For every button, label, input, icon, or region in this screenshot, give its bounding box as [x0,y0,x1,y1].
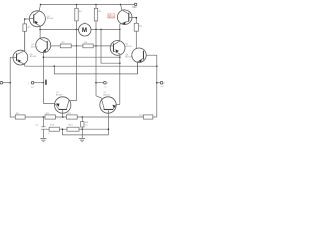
svg-text:BD140: BD140 [30,56,37,58]
svg-text:BD140: BD140 [47,18,54,20]
svg-text:M: M [82,27,87,34]
svg-text:BD140: BD140 [125,57,132,59]
svg-text:12V: 12V [132,6,137,9]
svg-text:BD139: BD139 [125,46,132,48]
svg-text:BD140: BD140 [103,94,110,96]
svg-text:BD139: BD139 [56,94,63,96]
svg-text:BD139: BD139 [31,46,38,48]
svg-text:BD139: BD139 [108,17,115,19]
